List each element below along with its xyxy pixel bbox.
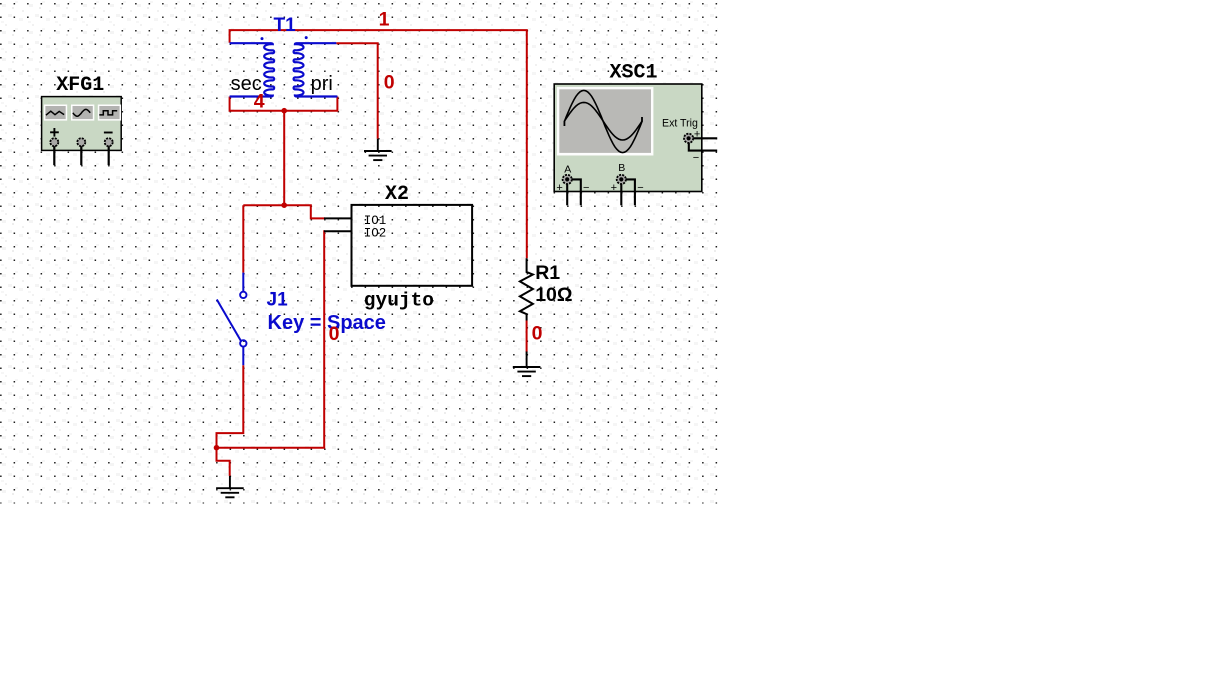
svg-text:10Ω: 10Ω xyxy=(535,284,572,306)
svg-text:+: + xyxy=(556,182,562,194)
svg-text:XFG1: XFG1 xyxy=(56,74,104,97)
svg-text:−: − xyxy=(583,182,589,194)
svg-text:B: B xyxy=(618,162,625,174)
svg-text:+: + xyxy=(694,128,700,140)
svg-text:+: + xyxy=(611,182,617,194)
svg-text:J1: J1 xyxy=(267,290,289,311)
svg-text:0: 0 xyxy=(532,323,543,345)
svg-text:IO2: IO2 xyxy=(364,227,387,241)
svg-text:A: A xyxy=(564,163,571,175)
svg-text:pri: pri xyxy=(311,73,333,95)
svg-text:gyujto: gyujto xyxy=(364,290,434,312)
svg-text:XSC1: XSC1 xyxy=(610,62,658,85)
svg-text:4: 4 xyxy=(254,90,265,112)
svg-text:1: 1 xyxy=(379,8,390,30)
svg-text:0: 0 xyxy=(384,71,395,93)
svg-text:Ext Trig: Ext Trig xyxy=(662,117,698,129)
svg-text:R1: R1 xyxy=(535,262,560,284)
svg-text:0: 0 xyxy=(329,323,340,345)
svg-text:T1: T1 xyxy=(274,15,297,36)
svg-text:X2: X2 xyxy=(385,183,409,206)
svg-text:−: − xyxy=(637,182,643,194)
svg-text:−: − xyxy=(693,152,699,164)
svg-text:Key = Space: Key = Space xyxy=(268,312,386,334)
